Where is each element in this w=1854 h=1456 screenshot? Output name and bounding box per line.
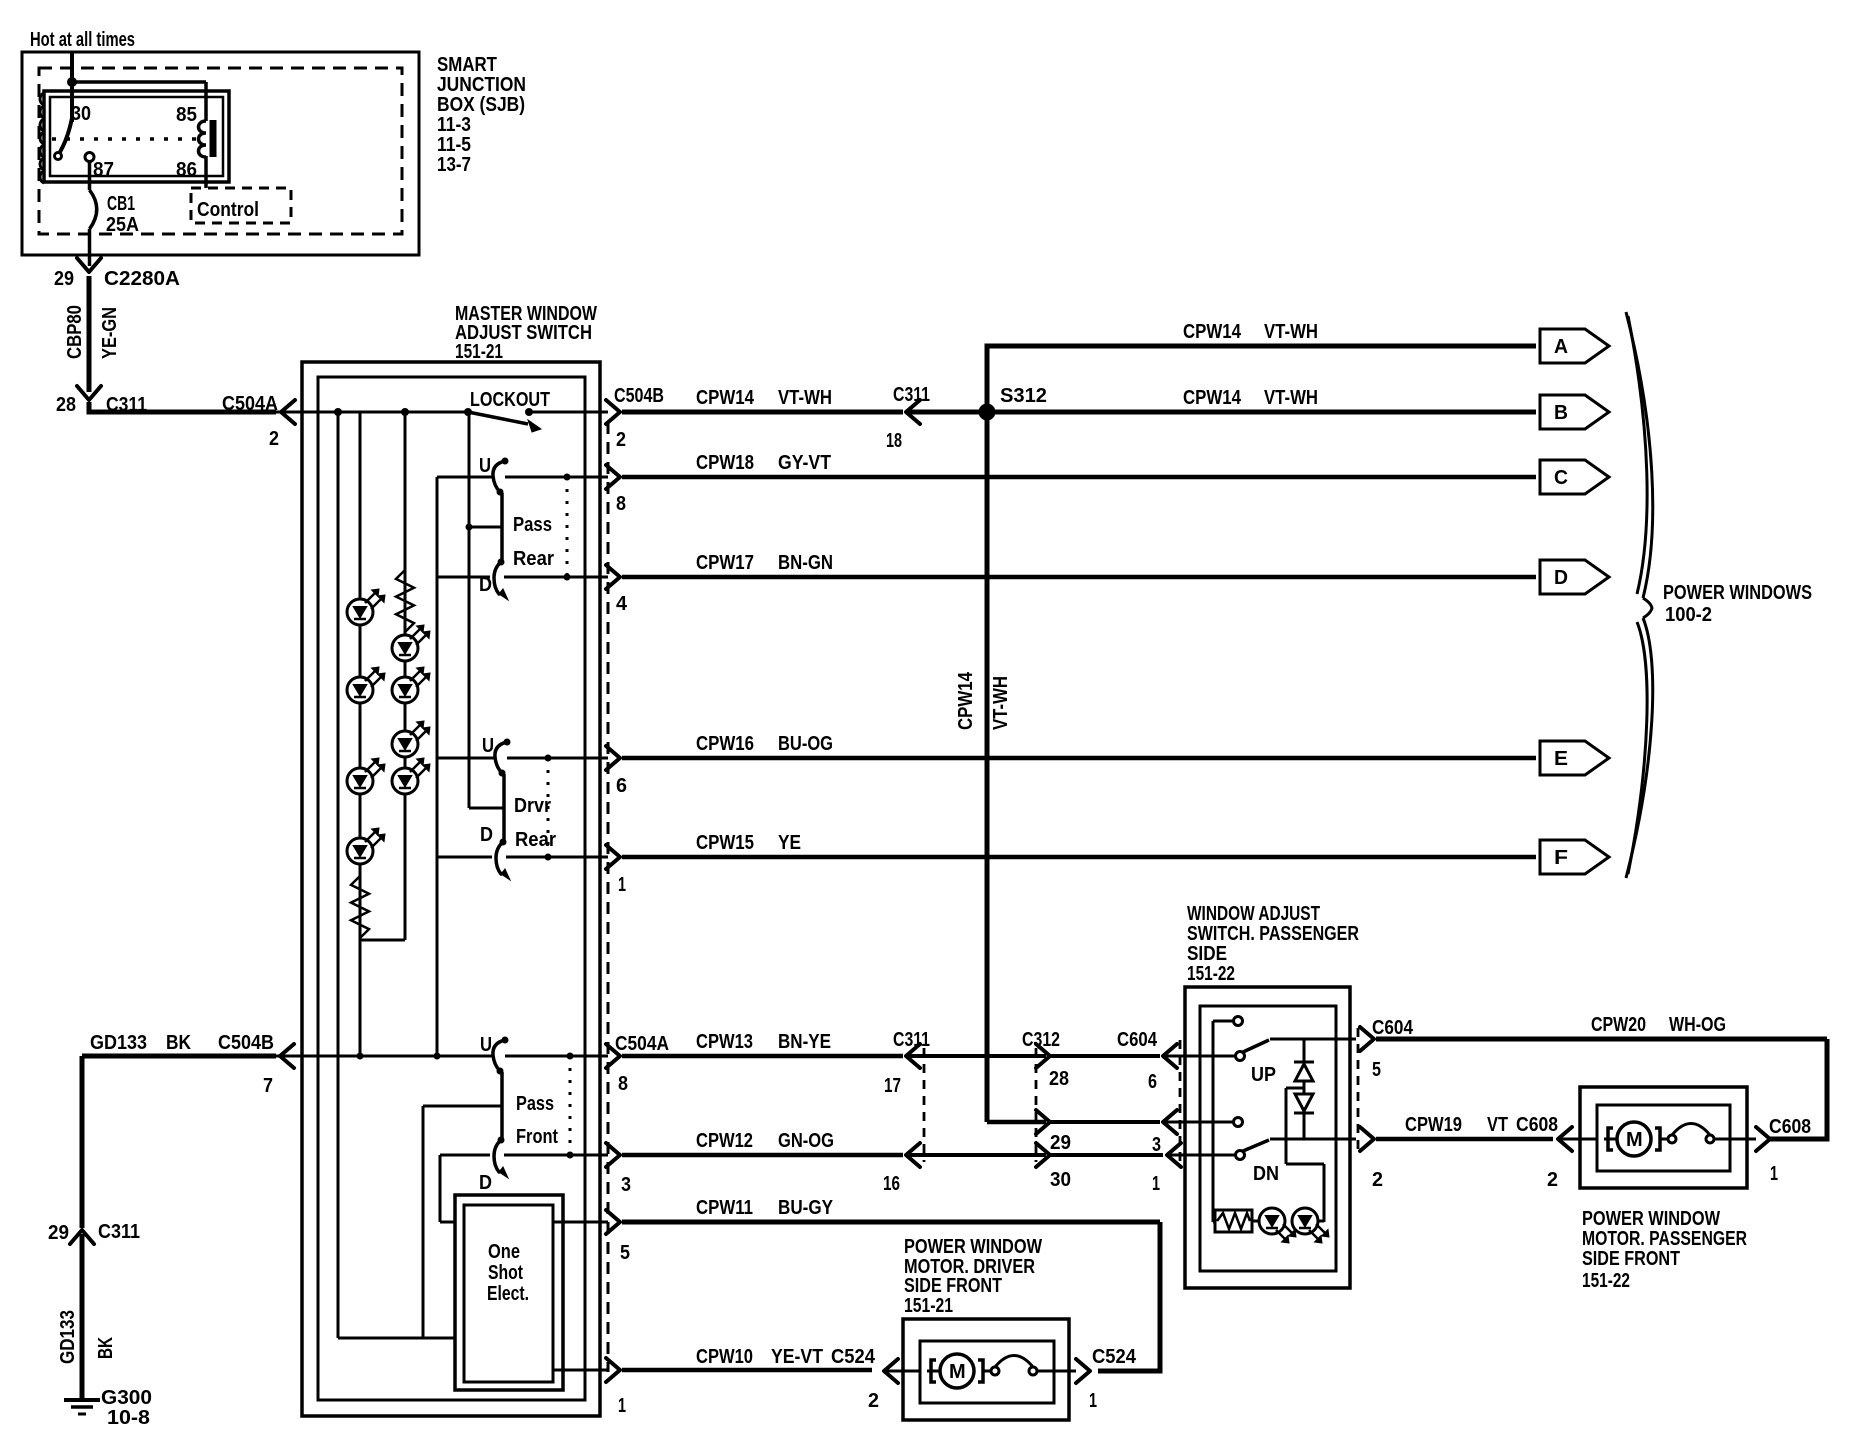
svg-text:C504A: C504A: [222, 393, 278, 415]
svg-text:Drvr: Drvr: [514, 795, 551, 817]
svg-text:30: 30: [1050, 1169, 1071, 1191]
svg-text:C608: C608: [1516, 1114, 1558, 1136]
svg-text:2: 2: [1372, 1169, 1383, 1191]
svg-text:C: C: [1554, 467, 1568, 489]
svg-text:10-8: 10-8: [107, 1407, 150, 1429]
svg-text:CPW14: CPW14: [955, 671, 977, 730]
svg-text:5: 5: [1372, 1059, 1381, 1081]
svg-text:1: 1: [1770, 1163, 1778, 1185]
svg-text:3: 3: [621, 1174, 631, 1196]
svg-text:BK: BK: [166, 1032, 191, 1054]
svg-text:2: 2: [868, 1390, 879, 1412]
svg-text:1: 1: [1089, 1390, 1097, 1412]
svg-text:CPW13: CPW13: [696, 1031, 753, 1053]
svg-text:86: 86: [176, 159, 197, 181]
svg-text:POWER WINDOW: POWER WINDOW: [1582, 1208, 1720, 1230]
svg-text:Pass: Pass: [516, 1093, 554, 1115]
svg-text:SWITCH. PASSENGER: SWITCH. PASSENGER: [1187, 923, 1359, 945]
svg-text:1: 1: [618, 1395, 626, 1417]
svg-text:C504A: C504A: [615, 1033, 669, 1055]
svg-text:29: 29: [1050, 1132, 1071, 1154]
svg-text:SIDE FRONT: SIDE FRONT: [904, 1275, 1002, 1297]
svg-text:CPW14: CPW14: [1183, 387, 1242, 409]
svg-text:CPW20: CPW20: [1591, 1014, 1646, 1036]
svg-text:C504B: C504B: [218, 1032, 274, 1054]
svg-text:29: 29: [48, 1222, 69, 1244]
svg-text:Elect.: Elect.: [487, 1283, 529, 1305]
svg-text:4: 4: [616, 593, 628, 615]
svg-text:Shot: Shot: [488, 1262, 523, 1284]
svg-text:CPW12: CPW12: [696, 1130, 753, 1152]
svg-text:2: 2: [616, 429, 626, 451]
svg-text:M: M: [1626, 1129, 1643, 1151]
svg-text:YE-VT: YE-VT: [771, 1346, 823, 1368]
svg-text:1: 1: [618, 874, 626, 896]
svg-text:CPW10: CPW10: [696, 1346, 753, 1368]
svg-text:6: 6: [616, 775, 627, 797]
svg-text:VT-WH: VT-WH: [778, 387, 832, 409]
svg-text:C311: C311: [893, 1029, 930, 1051]
svg-text:CPW14: CPW14: [1183, 321, 1242, 343]
svg-text:E: E: [1554, 748, 1568, 770]
svg-text:U: U: [480, 1034, 492, 1056]
svg-text:U: U: [482, 735, 494, 757]
svg-text:VT-WH: VT-WH: [1264, 387, 1318, 409]
svg-text:5: 5: [620, 1242, 630, 1264]
svg-text:1: 1: [1152, 1173, 1160, 1195]
svg-text:CPW14: CPW14: [696, 387, 755, 409]
svg-text:C604: C604: [1117, 1029, 1158, 1051]
svg-text:D: D: [479, 1172, 492, 1194]
svg-text:D: D: [480, 824, 493, 846]
svg-text:GD133: GD133: [57, 1310, 79, 1364]
svg-text:CPW11: CPW11: [696, 1197, 753, 1219]
svg-text:U: U: [479, 455, 491, 477]
svg-text:G300: G300: [101, 1387, 152, 1409]
svg-text:CB1: CB1: [107, 193, 135, 215]
svg-text:SIDE: SIDE: [1187, 943, 1227, 965]
svg-text:6: 6: [1148, 1071, 1157, 1093]
svg-text:Hot at all times: Hot at all times: [30, 29, 135, 51]
svg-text:CPW17: CPW17: [696, 552, 754, 574]
svg-text:BN-YE: BN-YE: [778, 1031, 831, 1053]
svg-text:17: 17: [884, 1075, 901, 1097]
svg-text:151-22: 151-22: [1582, 1270, 1630, 1292]
svg-text:LOCKOUT: LOCKOUT: [470, 389, 550, 411]
svg-text:Control: Control: [197, 199, 259, 221]
svg-text:SIDE FRONT: SIDE FRONT: [1582, 1248, 1680, 1270]
svg-text:151-22: 151-22: [1187, 963, 1235, 985]
svg-text:2: 2: [269, 428, 279, 450]
svg-text:GY-VT: GY-VT: [778, 452, 831, 474]
svg-text:2: 2: [1547, 1169, 1558, 1191]
svg-text:BU-OG: BU-OG: [778, 733, 833, 755]
svg-text:M: M: [949, 1361, 966, 1383]
svg-text:JUNCTION: JUNCTION: [437, 74, 526, 96]
svg-text:F: F: [1554, 847, 1568, 869]
svg-text:8: 8: [618, 1073, 628, 1095]
svg-text:A: A: [1554, 336, 1568, 358]
svg-text:Rear: Rear: [515, 829, 556, 851]
svg-text:BOX (SJB): BOX (SJB): [437, 94, 525, 116]
svg-text:28: 28: [1049, 1068, 1069, 1090]
svg-text:B: B: [1554, 402, 1568, 424]
svg-text:C524: C524: [1092, 1346, 1137, 1368]
svg-text:Pass: Pass: [513, 514, 552, 536]
svg-text:UP: UP: [1251, 1064, 1276, 1086]
svg-text:Front: Front: [516, 1126, 558, 1148]
svg-text:POWER WINDOW: POWER WINDOW: [904, 1236, 1042, 1258]
svg-text:DN: DN: [1253, 1163, 1279, 1185]
svg-text:11-5: 11-5: [437, 134, 471, 156]
svg-text:BN-GN: BN-GN: [778, 552, 833, 574]
svg-text:8: 8: [616, 493, 626, 515]
svg-text:D: D: [479, 574, 492, 596]
svg-text:YE-GN: YE-GN: [99, 307, 121, 359]
svg-text:C504B: C504B: [614, 385, 664, 407]
svg-text:16: 16: [883, 1173, 900, 1195]
svg-text:100-2: 100-2: [1665, 604, 1712, 626]
svg-text:151-21: 151-21: [904, 1295, 953, 1317]
svg-text:VT-WH: VT-WH: [1264, 321, 1318, 343]
svg-text:C2280A: C2280A: [104, 268, 180, 290]
svg-text:7: 7: [263, 1075, 273, 1097]
svg-text:POWER WINDOWS: POWER WINDOWS: [1663, 582, 1812, 604]
svg-text:85: 85: [176, 104, 197, 126]
svg-text:WH-OG: WH-OG: [1669, 1014, 1726, 1036]
svg-text:WINDOW ADJUST: WINDOW ADJUST: [1187, 903, 1320, 925]
svg-text:S312: S312: [1000, 385, 1047, 407]
svg-text:CPW18: CPW18: [696, 452, 754, 474]
svg-text:SMART: SMART: [437, 54, 497, 76]
svg-text:VT: VT: [1487, 1114, 1508, 1136]
svg-text:C311: C311: [893, 384, 930, 406]
svg-text:C604: C604: [1372, 1017, 1414, 1039]
svg-text:One: One: [488, 1241, 520, 1263]
svg-text:CPW16: CPW16: [696, 733, 754, 755]
svg-text:C312: C312: [1022, 1029, 1060, 1051]
svg-text:151-21: 151-21: [455, 341, 503, 363]
svg-text:MOTOR. PASSENGER: MOTOR. PASSENGER: [1582, 1228, 1747, 1250]
svg-text:3: 3: [1152, 1134, 1161, 1156]
svg-text:VT-WH: VT-WH: [990, 676, 1012, 730]
svg-text:BU-GY: BU-GY: [778, 1197, 834, 1219]
svg-text:D: D: [1554, 567, 1568, 589]
svg-text:29: 29: [54, 268, 74, 290]
svg-text:13-7: 13-7: [437, 154, 471, 176]
svg-text:BK: BK: [95, 1337, 117, 1359]
svg-text:11-3: 11-3: [437, 114, 471, 136]
svg-text:Rear: Rear: [513, 548, 554, 570]
svg-text:87: 87: [93, 159, 114, 181]
svg-text:18: 18: [886, 430, 902, 452]
svg-text:CPW15: CPW15: [696, 832, 754, 854]
svg-text:GN-OG: GN-OG: [778, 1130, 834, 1152]
svg-text:C524: C524: [831, 1346, 876, 1368]
svg-text:CPW19: CPW19: [1405, 1114, 1462, 1136]
svg-text:28: 28: [56, 394, 76, 416]
svg-text:C608: C608: [1769, 1116, 1811, 1138]
svg-text:YE: YE: [778, 832, 801, 854]
svg-text:25A: 25A: [106, 214, 139, 236]
svg-text:CBP80: CBP80: [64, 305, 86, 359]
svg-text:GD133: GD133: [90, 1032, 147, 1054]
svg-text:C311: C311: [98, 1221, 140, 1243]
